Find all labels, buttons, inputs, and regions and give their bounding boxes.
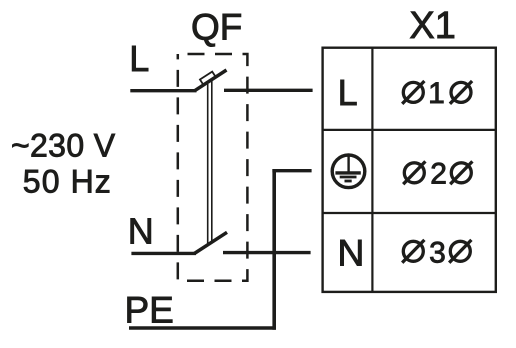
terminal screw 1a (402, 81, 424, 104)
svg-text:PE: PE (125, 290, 174, 331)
wire PE vertical riser (272, 169, 276, 330)
terminal screw 2a (403, 161, 425, 184)
svg-text:L: L (338, 72, 358, 113)
svg-text:X1: X1 (409, 5, 455, 47)
wire L left segment (130, 89, 196, 92)
wire PE bottom horizontal (129, 326, 276, 330)
terminal block X1 outline (323, 48, 496, 292)
terminal screw 2b (450, 161, 472, 184)
X1 vertical divider (371, 48, 373, 292)
breaker pole 1 blade (L) (195, 70, 227, 91)
terminal screw 3a (402, 240, 424, 263)
svg-text:L: L (129, 38, 149, 79)
svg-text:1: 1 (428, 77, 445, 110)
X1 row divider 1 (323, 129, 496, 131)
svg-text:QF: QF (191, 6, 242, 47)
circuit breaker QF dashed enclosure (178, 54, 248, 281)
X1 row divider 2 (323, 212, 496, 214)
terminal screw 1b (450, 81, 472, 104)
svg-text:2: 2 (430, 158, 447, 191)
svg-text:N: N (128, 211, 154, 252)
svg-text:~230 V: ~230 V (11, 128, 116, 164)
wire N right segment to X1 (223, 251, 311, 254)
breaker pole 2 blade (N) (195, 232, 228, 253)
protective earth symbol (332, 155, 365, 188)
wire L right segment to X1 (224, 89, 313, 92)
wire PE horizontal to X1 (272, 169, 311, 172)
terminal screw 3b (449, 240, 471, 263)
svg-text:50 Hz: 50 Hz (23, 164, 112, 200)
svg-text:N: N (337, 231, 364, 273)
breaker tie bar (mechanical link) (207, 84, 209, 245)
wire N left segment (131, 252, 196, 255)
svg-text:3: 3 (429, 236, 446, 269)
breaker pole 1 latch marker (200, 72, 215, 85)
